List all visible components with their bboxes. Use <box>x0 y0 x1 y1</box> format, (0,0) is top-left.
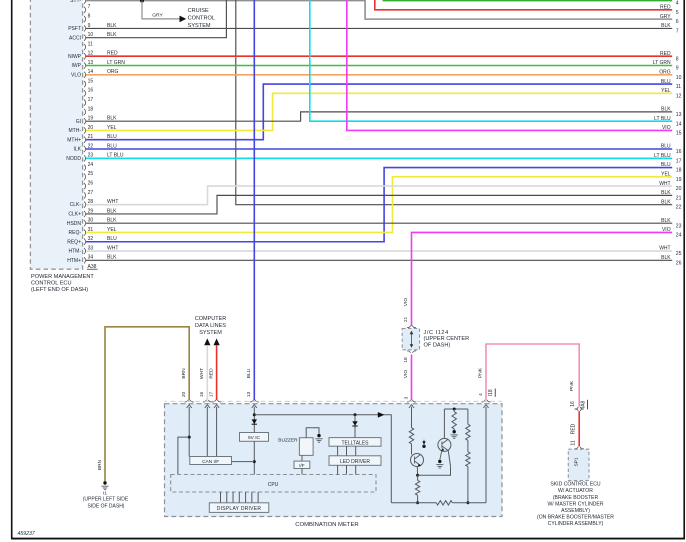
arrow up RED <box>214 338 220 345</box>
meter line pin20 to CAN IF <box>188 407 190 457</box>
wire RED from top to right 5 <box>375 0 672 10</box>
svg-text:(UPPER LEFT SIDE: (UPPER LEFT SIDE <box>83 497 129 503</box>
junction dot pin13 <box>253 413 256 416</box>
CAN IF box <box>190 457 232 465</box>
svg-text:8: 8 <box>676 56 679 62</box>
wire VIO J/C to meter pin3 <box>411 355 413 401</box>
svg-text:22: 22 <box>676 205 682 211</box>
IF box <box>294 461 310 468</box>
svg-text:21: 21 <box>676 195 682 201</box>
wire BLK pin34 to right 26 <box>86 259 672 261</box>
svg-text:BRN: BRN <box>97 459 103 470</box>
svg-text:HTM-: HTM- <box>69 249 82 255</box>
line R2 stubs <box>417 475 419 480</box>
svg-text:13: 13 <box>246 392 252 398</box>
line between R4 R5 <box>467 440 469 452</box>
wire GRN to right 4 <box>383 0 672 1</box>
comb CPU to display driver <box>220 492 222 503</box>
svg-text:IA8: IA8 <box>580 401 586 409</box>
svg-text:27: 27 <box>88 190 94 196</box>
wire RED IA8 to skid ECU <box>578 411 580 446</box>
line Q2 collector up <box>443 409 445 438</box>
wire WHT to meter pin16 <box>206 345 208 400</box>
svg-text:18: 18 <box>676 168 682 174</box>
svg-text:9: 9 <box>676 66 679 72</box>
svg-text:17: 17 <box>676 158 682 164</box>
svg-text:I/F: I/F <box>299 463 305 468</box>
svg-text:VIO: VIO <box>403 298 409 307</box>
svg-text:(UPPER CENTER: (UPPER CENTER <box>424 336 470 342</box>
svg-text:STT-: STT- <box>70 0 81 4</box>
led driver box <box>329 456 381 466</box>
svg-text:23: 23 <box>676 223 682 229</box>
svg-text:21: 21 <box>403 317 409 323</box>
svg-text:J/C I124: J/C I124 <box>424 330 449 336</box>
transistor Q1 <box>411 454 424 467</box>
gauge dot above Q1 <box>422 445 425 448</box>
display driver box <box>209 503 268 513</box>
svg-text:(LEFT END OF DASH): (LEFT END OF DASH) <box>31 287 88 293</box>
svg-text:HTM+: HTM+ <box>67 258 81 264</box>
svg-text:OF DASH): OF DASH) <box>424 343 451 349</box>
svg-text:HSDN: HSDN <box>67 221 82 227</box>
border frame right <box>683 0 685 539</box>
svg-text:RED: RED <box>208 368 214 379</box>
svg-text:GRY: GRY <box>152 12 163 18</box>
svg-text:20: 20 <box>181 392 187 398</box>
bottom bus <box>391 502 436 504</box>
arrow up WHT <box>204 338 210 345</box>
svg-text:459237: 459237 <box>18 531 36 537</box>
svg-text:RED: RED <box>570 423 576 434</box>
bracket J/C top <box>407 326 411 328</box>
svg-text:POWER MANAGEMENT: POWER MANAGEMENT <box>31 274 94 280</box>
wire WHT pin28 to right 20 <box>86 186 672 205</box>
CPU box <box>171 475 376 493</box>
svg-text:ILK: ILK <box>73 147 81 153</box>
wire VIO from top to right 15 <box>347 0 672 130</box>
buzzer ground <box>317 434 320 437</box>
svg-text:DISPLAY DRIVER: DISPLAY DRIVER <box>217 506 262 512</box>
wire YEL pin31 to right 19 <box>86 177 672 233</box>
telltales box <box>329 438 381 447</box>
svg-text:20: 20 <box>676 186 682 192</box>
svg-text:12: 12 <box>676 93 682 99</box>
svg-text:(ON BRAKE BOOSTER/MASTER: (ON BRAKE BOOSTER/MASTER <box>537 515 614 521</box>
5V IC box <box>240 433 269 442</box>
svg-text:8: 8 <box>88 14 91 20</box>
meter line pin17 to CAN IF <box>216 407 218 457</box>
top bus right section <box>444 408 468 410</box>
svg-text:16: 16 <box>676 149 682 155</box>
svg-text:SYSTEM: SYSTEM <box>199 330 222 336</box>
svg-text:4: 4 <box>478 393 484 396</box>
buzzer lead to ground <box>306 428 319 438</box>
svg-text:11: 11 <box>676 84 681 90</box>
svg-text:24: 24 <box>676 233 682 239</box>
svg-text:PSFT: PSFT <box>68 26 81 32</box>
line VIO pin3 down <box>411 407 413 428</box>
svg-text:5: 5 <box>676 10 679 16</box>
line emitter bus <box>418 466 451 475</box>
thermistor dot ground <box>453 429 455 430</box>
line bus up to pin4 <box>485 407 487 503</box>
line R5 to bus <box>467 467 469 503</box>
svg-text:16: 16 <box>570 401 576 407</box>
svg-text:15: 15 <box>676 131 682 137</box>
wire GRY pin7 STT- to right 6 <box>86 1 672 20</box>
svg-text:15: 15 <box>88 78 94 84</box>
meter pin arrows <box>187 405 192 408</box>
svg-text:4: 4 <box>676 1 679 7</box>
meter top light dashed line <box>165 400 503 402</box>
svg-text:14: 14 <box>676 121 682 127</box>
svg-text:CONTROL: CONTROL <box>188 15 215 21</box>
wire BLU pin22 to right 16 <box>86 148 672 150</box>
svg-text:17: 17 <box>208 392 214 398</box>
wire GRY branch to cruise control <box>142 1 180 19</box>
ground I1 <box>103 481 106 484</box>
diode D2 <box>352 421 357 426</box>
bracket skid pin11 <box>575 447 579 449</box>
resistor R4 <box>466 424 470 440</box>
svg-text:MTH+: MTH+ <box>67 137 81 143</box>
comb telltales to led driver <box>337 446 339 456</box>
svg-text:PNK: PNK <box>477 367 483 378</box>
IF to CPU line <box>301 469 303 475</box>
buzzer to IF line <box>301 455 303 461</box>
junction dot CAN IF branch <box>253 460 256 463</box>
wire LT BLU from top to right 14 <box>310 0 672 121</box>
border frame left <box>11 0 13 539</box>
svg-text:3: 3 <box>403 396 409 399</box>
svg-text:W/ MASTER CYLINDER: W/ MASTER CYLINDER <box>547 501 603 507</box>
svg-text:11: 11 <box>570 440 576 445</box>
svg-text:10: 10 <box>676 75 682 81</box>
junction dot telltales <box>354 413 357 416</box>
wire PNK meter pin4 to IA8 <box>486 344 579 407</box>
wire BLK from top to right 22 <box>236 0 672 205</box>
svg-text:16: 16 <box>199 392 205 398</box>
bracket J/C bottom <box>407 351 411 353</box>
resistor R2 <box>415 480 419 495</box>
line right vertical top <box>467 409 469 424</box>
svg-text:25: 25 <box>88 171 94 177</box>
wire RED to meter pin17 <box>216 345 218 400</box>
svg-text:PNK: PNK <box>569 380 575 391</box>
skid control ECU box <box>568 449 589 480</box>
wire RED pin12 to right 8 <box>86 55 672 57</box>
svg-text:WHT: WHT <box>199 368 205 379</box>
wire LT GRN pin13 to right 9 <box>86 65 672 67</box>
svg-text:24: 24 <box>88 162 94 168</box>
svg-text:SP1: SP1 <box>574 457 580 466</box>
meter branch to CPU <box>178 437 189 474</box>
svg-text:SIDE OF DASH): SIDE OF DASH) <box>88 503 125 509</box>
resistor R3 <box>452 412 456 429</box>
svg-text:CYLINDER ASSEMBLY): CYLINDER ASSEMBLY) <box>548 521 604 527</box>
svg-text:CRUISE: CRUISE <box>188 8 209 14</box>
wire BLU pin32 to right 18 <box>86 168 672 242</box>
telltales feed line <box>354 415 356 438</box>
svg-text:VIO: VIO <box>403 370 409 379</box>
junction connector J/C I124 box <box>402 329 419 350</box>
bracket IA8 <box>575 407 579 409</box>
svg-text:18: 18 <box>88 106 94 112</box>
wire ORG pin14 to right 10 <box>86 74 672 76</box>
J/C internal arrow <box>411 332 413 346</box>
svg-text:COMPUTER: COMPUTER <box>195 316 227 322</box>
svg-text:GI: GI <box>76 119 81 125</box>
combination meter box <box>165 404 503 517</box>
line R1 to Q1 <box>411 444 413 455</box>
wire LT BLU pin23 to right 17 <box>86 157 672 159</box>
svg-text:26: 26 <box>88 180 94 186</box>
wire BLK pin10 up at x226 <box>86 0 226 38</box>
junction dot right bus <box>466 501 469 504</box>
svg-text:BRN: BRN <box>181 368 187 379</box>
svg-text:NIWP: NIWP <box>68 54 82 60</box>
svg-text:VLO: VLO <box>71 72 81 78</box>
wire BLU pin21 to right 11 <box>86 84 672 140</box>
svg-text:CPU: CPU <box>268 482 279 488</box>
resistor R6 <box>436 501 452 505</box>
svg-text:ASSEMBLY): ASSEMBLY) <box>561 508 590 514</box>
svg-text:CONTROL ECU: CONTROL ECU <box>31 281 72 287</box>
arrow on 5V line <box>378 412 385 418</box>
svg-text:NODD: NODD <box>66 156 81 162</box>
svg-text:COMBINATION METER: COMBINATION METER <box>295 522 358 528</box>
wire BLK pin30 to right 23 <box>86 222 672 224</box>
svg-text:7: 7 <box>676 29 679 35</box>
svg-text:I18: I18 <box>488 389 494 396</box>
line dot down <box>453 409 455 412</box>
resistor R1 <box>409 428 413 444</box>
meter line 5VIC to CPU <box>253 441 255 474</box>
wire WHT pin33 to right 25 <box>86 250 672 252</box>
svg-text:DATA LINES: DATA LINES <box>195 323 226 329</box>
resistor R5 <box>466 452 470 467</box>
wire BLK pin9 to right 7 <box>86 27 672 29</box>
svg-text:REQ+: REQ+ <box>67 239 81 245</box>
meter line pin13 to 5V IC <box>253 407 255 433</box>
svg-text:25: 25 <box>676 251 682 257</box>
svg-text:I1: I1 <box>103 491 107 497</box>
wire BRN ground to meter pin20 <box>105 327 189 482</box>
svg-text:19: 19 <box>676 177 682 183</box>
wire BLK pin19 to right 13 <box>86 112 672 121</box>
svg-text:16: 16 <box>88 88 94 94</box>
meter line pin16 to CAN IF <box>206 407 208 457</box>
wire YEL pin20 to right 12 <box>86 93 672 130</box>
buzzer box <box>299 438 313 456</box>
ECU pin brackets and numbers 7-34 <box>84 0 86 4</box>
meter line CAN IF to dot <box>232 461 255 463</box>
line Q2 emitter diag <box>448 450 450 466</box>
svg-text:SKID CONTROL ECU: SKID CONTROL ECU <box>550 482 601 488</box>
svg-text:REQ-: REQ- <box>69 230 82 236</box>
svg-text:17: 17 <box>88 97 94 103</box>
comb led driver to CPU <box>337 465 339 474</box>
border frame bottom <box>11 538 685 540</box>
svg-text:13: 13 <box>676 112 682 118</box>
svg-text:TELLTALES: TELLTALES <box>341 440 369 446</box>
arrow to cruise control system <box>180 16 187 23</box>
line Q1 emitter down <box>416 467 418 476</box>
svg-text:5V IC: 5V IC <box>248 435 261 441</box>
wire VIO right 24 to junction <box>412 232 673 326</box>
svg-text:IWP: IWP <box>72 63 82 69</box>
svg-text:BLU: BLU <box>246 368 252 378</box>
meter pin brackets <box>185 400 189 402</box>
diode D1 <box>252 419 257 424</box>
svg-text:ACCI: ACCI <box>69 35 81 41</box>
wire BLU from top to meter pin13 <box>253 0 255 400</box>
svg-text:CLK-: CLK- <box>70 202 82 208</box>
svg-text:MTH-: MTH- <box>69 128 82 134</box>
bus 5V line <box>254 415 391 503</box>
svg-text:18: 18 <box>403 357 409 363</box>
svg-text:W/ ACTUATOR: W/ ACTUATOR <box>558 488 593 494</box>
transistor Q2 <box>438 438 451 451</box>
junction dot Q1 emitter <box>416 474 419 477</box>
svg-text:CAN I/F: CAN I/F <box>202 459 219 465</box>
power management control ECU A38 box <box>30 0 82 269</box>
svg-text:(BRAKE BOOSTER: (BRAKE BOOSTER <box>553 495 599 501</box>
svg-text:BUZZER: BUZZER <box>278 438 298 444</box>
svg-text:6: 6 <box>676 19 679 25</box>
junction dot top bus <box>453 408 456 411</box>
svg-text:7: 7 <box>88 4 91 10</box>
junction dot cruise branch <box>140 0 144 3</box>
junction dot pin20 branch <box>188 436 191 439</box>
svg-text:26: 26 <box>676 260 682 266</box>
junction dot R2 bus <box>416 501 419 504</box>
svg-text:11: 11 <box>88 41 93 47</box>
svg-text:CLK+: CLK+ <box>68 212 81 218</box>
wire BLK pin29 to right 21 <box>86 195 672 214</box>
svg-text:LED DRIVER: LED DRIVER <box>340 459 370 465</box>
ground below Q2 <box>440 451 442 460</box>
